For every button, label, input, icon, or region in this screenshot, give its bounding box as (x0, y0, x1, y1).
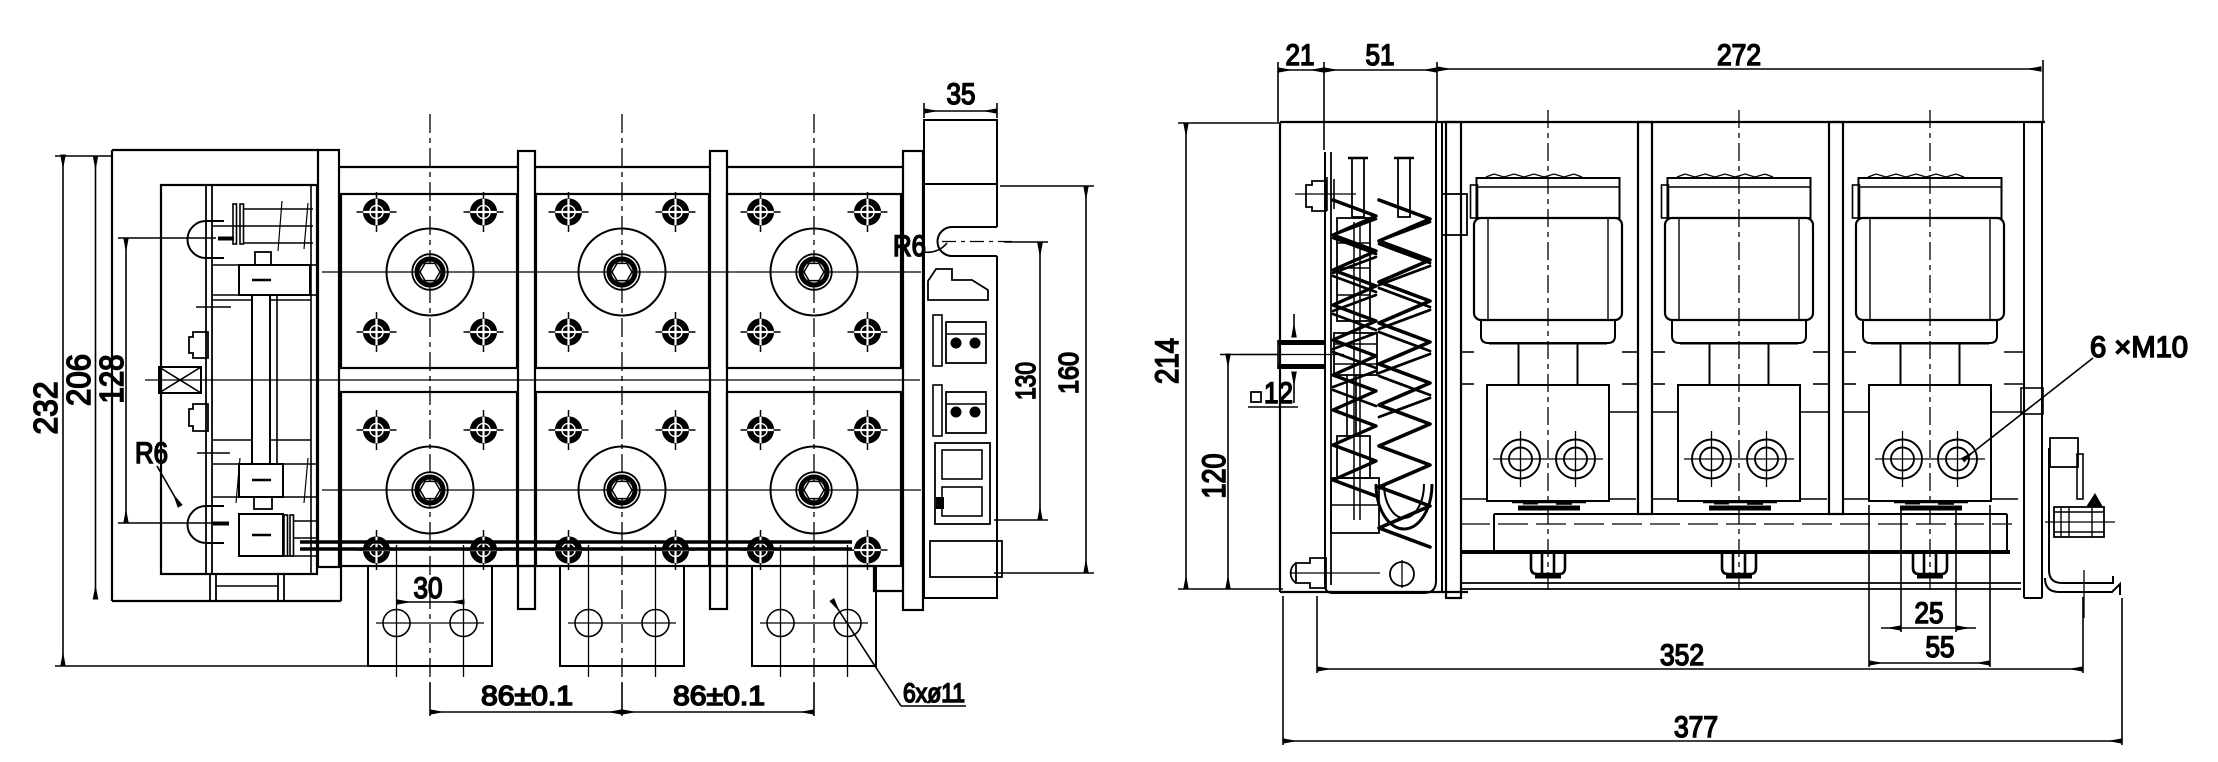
barrier bar 3 (710, 151, 727, 566)
nut pole2 (1722, 554, 1756, 577)
svg-text:214: 214 (1149, 338, 1185, 384)
inter-pole rails (1461, 352, 2025, 412)
column centerline 3 (813, 114, 815, 683)
dim 51 (1324, 69, 1437, 71)
plate B1 (341, 392, 517, 566)
dim 25 (1900, 510, 1902, 632)
left nut upper (189, 332, 208, 358)
lower contact stack plates (284, 515, 288, 556)
step up to plates bottom (340, 566, 342, 601)
mid lower block (239, 464, 283, 497)
svg-text:30: 30 (414, 572, 443, 605)
svg-text:272: 272 (1717, 39, 1761, 72)
svg-text:51: 51 (1366, 39, 1395, 72)
dim 30 (397, 601, 464, 603)
dim 214 (1185, 123, 1187, 589)
pole 3 (1820, 110, 2018, 593)
ring cluster B1 (387, 447, 474, 534)
svg-text:25: 25 (1915, 597, 1944, 630)
right wall (2023, 122, 2025, 598)
mechanism box (161, 185, 317, 574)
bottom wide block (1331, 478, 1379, 533)
bolts row2 lower (357, 530, 397, 570)
dim 377 (1282, 596, 1284, 745)
svg-text:160: 160 (1053, 352, 1084, 394)
svg-text:128: 128 (93, 355, 130, 404)
svg-text:35: 35 (947, 78, 976, 111)
mechanism side plate (1325, 122, 1436, 593)
svg-text:86±0.1: 86±0.1 (673, 680, 765, 711)
plate A2 (536, 194, 709, 368)
row1 horizontal centerline (322, 271, 921, 273)
svg-text:120: 120 (1196, 454, 1232, 499)
bracket strip lower (933, 385, 942, 436)
top-left bolt (1306, 181, 1326, 211)
label 6x11 (832, 600, 901, 706)
spring top pin right (1398, 158, 1410, 217)
dim 206 (95, 156, 97, 599)
nut pole1 (1531, 554, 1565, 577)
tie post 2 (1829, 122, 1843, 514)
svg-text:21: 21 (1286, 39, 1315, 72)
barrier bar 3 foot (710, 566, 727, 609)
ring cluster A3 (771, 229, 858, 316)
ring cluster B2 (579, 447, 666, 534)
lower clevis hook (188, 506, 224, 543)
aux pin (2054, 507, 2104, 537)
plate A1 (341, 194, 517, 368)
bus bar double line (300, 540, 852, 543)
aux pin wedge (2086, 493, 2103, 507)
spring top pin left (1352, 158, 1364, 217)
coil spring right (1379, 200, 1430, 547)
dim 86±0.1 right (622, 711, 814, 713)
terminal tab 2 (560, 545, 684, 677)
left wall bracket (1442, 194, 1467, 235)
dim 35 (924, 110, 997, 112)
plate B3 (727, 392, 901, 566)
pole 1 (1438, 110, 1636, 593)
right edge bar (903, 151, 923, 610)
lower lever arc (1376, 484, 1432, 529)
bolts row2 upper (357, 410, 397, 450)
extra mech rod lines (213, 299, 252, 301)
coil cross box (159, 367, 201, 393)
foot hole centerline (2083, 570, 2085, 618)
spring guide rods (1353, 222, 1355, 520)
svg-text:352: 352 (1660, 639, 1704, 672)
main link bar (252, 295, 270, 464)
svg-text:206: 206 (60, 354, 97, 406)
support wall (1446, 122, 1461, 598)
ring cluster B3 (771, 447, 858, 534)
armature block upper (1337, 218, 1370, 321)
wall bracket small (2021, 388, 2043, 414)
plates bottom step right (841, 566, 903, 591)
mechanism bottom stubs (188, 573, 313, 575)
dim 352 (1316, 596, 1318, 673)
plate B2 (536, 392, 709, 566)
tick crossing lower (197, 452, 230, 454)
shaft centerline (1240, 354, 1344, 356)
dim 232 (62, 155, 64, 666)
aux switch bracket (2050, 438, 2078, 467)
bottom mounting plate lines (1462, 582, 2021, 584)
svg-text:232: 232 (27, 382, 64, 435)
ring cluster A1 (387, 229, 474, 316)
dim 21 (1278, 69, 1324, 71)
left nut lower (189, 404, 208, 431)
svg-text:130: 130 (1010, 362, 1041, 400)
dim 120 (1227, 354, 1229, 589)
svg-text:377: 377 (1674, 711, 1718, 744)
svg-text:55: 55 (1926, 631, 1955, 664)
right bracket plate (924, 120, 997, 598)
dim 128 (125, 238, 127, 523)
upper contact stack plates (233, 204, 237, 244)
base insulating bar (1494, 513, 2007, 515)
lower rod lines (293, 520, 318, 522)
mechanism inner rails (205, 185, 207, 574)
bottom hex bolt (1296, 558, 1326, 588)
row2 horizontal centerline (322, 489, 921, 491)
terminal block upper (946, 322, 986, 363)
svg-text:12: 12 (1264, 377, 1293, 410)
column centerline 1 (429, 114, 431, 683)
svg-text:6xø11: 6xø11 (903, 678, 965, 708)
body top edge (1280, 121, 2045, 123)
top rail segments (339, 166, 518, 168)
pole 2 (1629, 110, 1827, 593)
lower terminal block (930, 541, 1002, 577)
dim 55 (1868, 505, 1870, 667)
drive shaft square 12 (1278, 340, 1326, 345)
base bar centerline (1460, 523, 2012, 525)
lower connector (935, 443, 990, 524)
upper rod lines (243, 208, 313, 210)
terminal tab 3 (752, 545, 876, 677)
upper clevis hook (188, 221, 224, 258)
upper block with cap (255, 252, 271, 265)
tie post 1 (1638, 122, 1652, 514)
barrier bar 2 foot (518, 566, 535, 609)
dim 86±0.1 left (429, 683, 431, 716)
terminal block lower (946, 392, 986, 433)
ring cluster A2 (579, 229, 666, 316)
nut pole3 (1913, 554, 1947, 577)
bolts row1 lower (357, 312, 397, 352)
dim 272 (1437, 68, 2041, 70)
bottom round nut (1390, 562, 1414, 586)
dim 130 (1039, 243, 1041, 520)
right foot flange (2049, 448, 2113, 583)
body bottom edge left (112, 600, 341, 602)
coil spring left (1333, 200, 1376, 496)
dim 160 (1085, 186, 1087, 573)
barrier bar 2 (518, 151, 535, 566)
bracket step profile (928, 269, 988, 300)
plate A3 (727, 194, 901, 368)
label 6xM10 (1963, 358, 2093, 460)
body bottom left (1280, 591, 1468, 593)
svg-text:86±0.1: 86±0.1 (481, 680, 573, 711)
bolts row1 upper (357, 192, 397, 232)
terminal tab 1 (368, 545, 492, 677)
bracket strip upper (933, 315, 942, 366)
body left edge (1279, 122, 1281, 592)
svg-text:6 ×M10: 6 ×M10 (2090, 331, 2188, 364)
middle horizontal centerline (145, 379, 920, 381)
body top edge left panel (112, 149, 318, 151)
tick crossing upper (196, 306, 231, 308)
svg-text:R6: R6 (135, 437, 168, 470)
armature block lower (1337, 436, 1370, 478)
dim square 12 (1293, 314, 1295, 337)
column centerline 2 (621, 114, 623, 683)
barrier bar 1 (318, 150, 339, 567)
body left edge (111, 150, 113, 601)
shaft hub block (1334, 333, 1377, 375)
lower block 2 (239, 514, 283, 556)
svg-text:R6: R6 (893, 230, 926, 263)
push rod pair (1346, 375, 1348, 436)
R6 keyhole slot (952, 226, 997, 228)
